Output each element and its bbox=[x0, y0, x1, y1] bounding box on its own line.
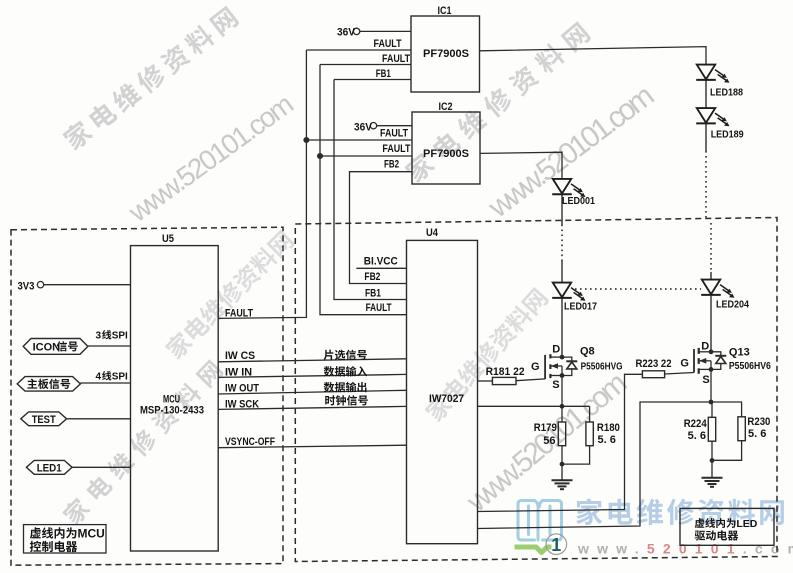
svg-text:LED189: LED189 bbox=[711, 130, 744, 141]
svg-text:LED1: LED1 bbox=[37, 463, 62, 475]
svg-text:U4: U4 bbox=[426, 227, 439, 239]
wire U4 sense line Q8 source junction bbox=[478, 405, 590, 407]
wire Q8 source down to junction bbox=[561, 376, 563, 407]
note box MCU caption bbox=[24, 525, 107, 553]
dotted continuation left chain bbox=[561, 225, 563, 262]
svg-text:S: S bbox=[702, 374, 709, 386]
svg-text:PF7900S: PF7900S bbox=[423, 48, 469, 60]
wire R179 bottom bbox=[561, 446, 563, 464]
IC U2 box IC2 PF7900S bbox=[412, 112, 480, 184]
dashed box MCU region bbox=[11, 227, 283, 565]
MCU U5 box bbox=[131, 246, 219, 551]
svg-text:5. 6: 5. 6 bbox=[748, 428, 766, 440]
wire 3V3 to U5 bbox=[44, 284, 131, 286]
node 36V terminal IC2 bbox=[370, 123, 376, 129]
svg-text:R181 22: R181 22 bbox=[486, 366, 525, 378]
svg-text:R224: R224 bbox=[684, 418, 708, 430]
svg-text:R179: R179 bbox=[534, 422, 557, 434]
svg-text:FB1: FB1 bbox=[376, 68, 391, 80]
wire LED1 to U5 bbox=[72, 466, 130, 468]
svg-text:www.520101.com: www.520101.com bbox=[122, 89, 298, 229]
dashed box LED-driver region bbox=[295, 218, 777, 562]
watermark center faint bbox=[163, 228, 296, 361]
svg-text:SPI: SPI bbox=[112, 331, 128, 342]
wire 36V to IC2 bbox=[377, 125, 412, 127]
wire FAULT1 IC2 from bus L1 bbox=[306, 139, 412, 141]
LED188 bbox=[696, 65, 729, 83]
svg-text:36V: 36V bbox=[354, 122, 373, 134]
junction dot L2 bbox=[318, 154, 323, 159]
wire mainboard signal to U5 (4-wire SPI) bbox=[80, 382, 130, 384]
wire R230 bottom to junction bbox=[712, 441, 742, 461]
wire 36V to IC1 bbox=[360, 30, 411, 32]
wire R181 to Q8 gate bbox=[516, 379, 545, 381]
wire R224 top bbox=[711, 402, 713, 417]
logo site name characters bbox=[576, 498, 602, 525]
LED204 bbox=[701, 280, 734, 298]
svg-text:36V: 36V bbox=[337, 27, 356, 39]
svg-text:VSYNC-OFF: VSYNC-OFF bbox=[225, 436, 275, 448]
svg-text:R180: R180 bbox=[597, 422, 620, 434]
svg-text:IC2: IC2 bbox=[439, 101, 453, 113]
wire R180 top bbox=[589, 406, 591, 422]
node 3V3 terminal bbox=[37, 282, 43, 288]
wire R180 bottom to junction bbox=[562, 446, 590, 464]
wire U4 gate drive to R181 bbox=[478, 380, 493, 382]
svg-text:LED204: LED204 bbox=[716, 300, 749, 311]
wire VSYNC-OFF U5 to U4 bbox=[218, 445, 406, 448]
IC U1 box IC1 PF7900S bbox=[411, 16, 480, 92]
hexagon LED1 bbox=[26, 460, 72, 474]
resistor R179 bbox=[558, 422, 565, 446]
svg-text:R223 22: R223 22 bbox=[636, 358, 672, 370]
wire R223 to Q13 gate bbox=[665, 373, 694, 375]
svg-text:G: G bbox=[680, 358, 689, 370]
svg-text:FB1: FB1 bbox=[365, 288, 381, 300]
ground Q13 side bbox=[702, 460, 723, 486]
junction dot ground Q8 bbox=[560, 462, 565, 467]
resistor R230 bbox=[738, 417, 745, 441]
resistor R181 bbox=[492, 377, 516, 384]
transistor Q8 P5506HVG bbox=[545, 354, 577, 379]
watermark top-center bbox=[402, 20, 592, 185]
wire TEST to U5 bbox=[67, 418, 131, 420]
svg-text:1: 1 bbox=[551, 535, 561, 555]
resistor R224 bbox=[708, 417, 715, 441]
junction dot L1 bbox=[304, 138, 309, 143]
wire FB2 IC2 + bus L4 down to U4 FB2 bbox=[350, 172, 413, 284]
node 36V terminal IC1 bbox=[353, 28, 359, 34]
svg-text:3: 3 bbox=[96, 331, 102, 342]
svg-text:IW CS: IW CS bbox=[225, 350, 255, 362]
wire LED204 to Q13 drain bbox=[710, 296, 712, 352]
wire IW IN U5 to U4 bbox=[218, 374, 406, 377]
logo book icon bbox=[518, 501, 562, 541]
svg-text:TEST: TEST bbox=[32, 414, 56, 426]
wire into LED204 bbox=[710, 272, 712, 280]
svg-text:U5: U5 bbox=[162, 233, 174, 245]
svg-text:PF7900S: PF7900S bbox=[423, 148, 469, 160]
resistor R223 bbox=[642, 371, 664, 378]
wire IW OUT U5 to U4 bbox=[218, 390, 406, 394]
wire IW SCK U5 to U4 bbox=[218, 406, 406, 409]
pin label data output bbox=[324, 382, 335, 392]
svg-text:LED188: LED188 bbox=[710, 88, 743, 99]
wire LED188 to LED189 bbox=[705, 81, 707, 109]
LED001 bbox=[552, 179, 585, 197]
wire FAULT1 IC1 + bus L1 down to U5 FAULT bbox=[306, 49, 411, 51]
U4SECTION bbox=[356, 268, 742, 528]
dotted continuation right chain lower bbox=[710, 223, 712, 272]
watermark right-center faint bbox=[423, 286, 550, 424]
wire IW CS U5 to U4 bbox=[218, 359, 406, 362]
svg-text:FAULT: FAULT bbox=[382, 143, 410, 155]
svg-text:IW SCK: IW SCK bbox=[225, 398, 259, 410]
svg-text:P5506HVG: P5506HVG bbox=[581, 361, 623, 373]
wire BI.VCC into U4 bbox=[356, 267, 406, 269]
svg-text:LED: LED bbox=[736, 518, 757, 530]
caption dashed box is MCU control circuit bbox=[30, 527, 41, 538]
junction dot Q13 sense bbox=[709, 400, 714, 405]
ground Q8 side bbox=[552, 464, 573, 489]
hexagon mainboard signal bbox=[17, 377, 80, 392]
pin label clock signal bbox=[325, 395, 335, 405]
svg-text:FB2: FB2 bbox=[384, 159, 399, 171]
driver U4 box IW7027 bbox=[407, 240, 478, 543]
svg-text:5. 6: 5. 6 bbox=[598, 434, 616, 446]
watermark top-left bbox=[60, 4, 240, 152]
label mainboard signal bbox=[27, 379, 37, 389]
transistor Q13 P5506HV6 bbox=[694, 348, 726, 374]
svg-text:FAULT: FAULT bbox=[382, 53, 410, 65]
wire below LED001 bbox=[561, 195, 563, 225]
wire FAULT2 IC1 + bus L2 down to U4 FAULT bbox=[320, 64, 411, 66]
svg-text:IW IN: IW IN bbox=[225, 367, 252, 379]
wire R224 bottom bbox=[711, 441, 713, 460]
MCUSECTION bbox=[37, 282, 406, 468]
svg-text:ICON: ICON bbox=[33, 342, 61, 354]
logo green swoosh bbox=[515, 547, 552, 553]
LED017 bbox=[552, 283, 585, 301]
wire IC2 output to LED001 bbox=[480, 152, 562, 179]
wire U4 sense line Q13 (down right pin) bbox=[478, 402, 743, 529]
svg-text:BI.VCC: BI.VCC bbox=[364, 256, 398, 268]
junction dot Q8 sense bbox=[560, 404, 565, 409]
wire ICON signal to U5 (3-wire SPI) bbox=[88, 345, 131, 347]
LEDS bbox=[552, 65, 734, 358]
caption dashed box is LED driver circuit bbox=[695, 518, 705, 528]
svg-text:LED017: LED017 bbox=[564, 302, 597, 313]
wire U4 gate drive Q13 (down right pin) bbox=[478, 374, 643, 511]
hexagon ICON signal bbox=[23, 339, 88, 355]
svg-text:P5506HV6: P5506HV6 bbox=[729, 360, 771, 372]
svg-text:FB2: FB2 bbox=[364, 271, 380, 283]
svg-text:FAULT: FAULT bbox=[225, 308, 253, 320]
dotted continuation right chain upper bbox=[705, 151, 707, 221]
svg-text:R230: R230 bbox=[747, 416, 770, 428]
wire R230 top bbox=[741, 402, 743, 417]
svg-text:SPI: SPI bbox=[112, 372, 128, 383]
TOPSECTION bbox=[218, 28, 706, 318]
svg-text:LED001: LED001 bbox=[562, 196, 595, 207]
wire below LED189 bbox=[705, 124, 707, 151]
resistor R180 bbox=[586, 422, 593, 446]
svg-text:FAULT: FAULT bbox=[374, 38, 402, 50]
svg-text:S: S bbox=[552, 379, 559, 391]
svg-text:MSP-130-2433: MSP-130-2433 bbox=[140, 405, 204, 417]
svg-text:3V3: 3V3 bbox=[18, 281, 35, 293]
LED189 bbox=[696, 108, 729, 126]
svg-text:FAULT: FAULT bbox=[380, 128, 408, 140]
pin label chip-select signal bbox=[324, 350, 334, 360]
wire into LED017 bbox=[561, 261, 563, 283]
junction dot ground Q13 bbox=[710, 458, 715, 463]
svg-text:Q8: Q8 bbox=[580, 346, 595, 358]
svg-text:FAULT: FAULT bbox=[366, 302, 392, 314]
svg-text:4: 4 bbox=[96, 372, 102, 383]
wire LED017 to Q8 drain bbox=[561, 299, 563, 358]
wire Q13 source down to junction bbox=[710, 369, 712, 402]
watermark mid-left bbox=[60, 358, 224, 527]
svg-text:G: G bbox=[531, 361, 540, 373]
wire IC1 output to LED188 chain bbox=[480, 47, 707, 65]
wire FB1 IC1 + bus L3 down to U4 FB1 bbox=[334, 79, 411, 81]
svg-text:IW7027: IW7027 bbox=[429, 393, 464, 405]
dotted link between LED chains bbox=[575, 288, 701, 290]
svg-text:56: 56 bbox=[543, 435, 555, 447]
svg-text:IC1: IC1 bbox=[438, 5, 452, 17]
svg-text:MCU: MCU bbox=[78, 527, 105, 541]
net marker circle 1 bbox=[546, 534, 567, 555]
svg-text:5. 6: 5. 6 bbox=[688, 430, 706, 442]
svg-text:D: D bbox=[552, 344, 560, 356]
QSECTION bbox=[492, 348, 745, 555]
wire FAULT2 IC2 from bus L2 bbox=[320, 155, 412, 157]
hexagon TEST bbox=[21, 412, 67, 426]
svg-text:D: D bbox=[701, 341, 709, 353]
pin label data input bbox=[324, 366, 335, 376]
wire R179 top bbox=[561, 406, 563, 422]
svg-text:IW OUT: IW OUT bbox=[225, 382, 259, 394]
note box LED caption bbox=[680, 508, 774, 545]
svg-text:Q13: Q13 bbox=[729, 347, 750, 359]
svg-text:www.520101.com: www.520101.com bbox=[577, 541, 793, 557]
